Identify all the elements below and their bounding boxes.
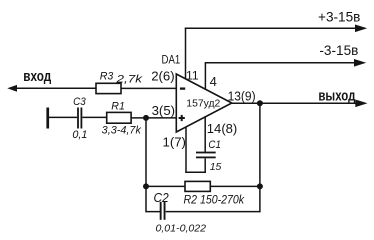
svg-text:вход: вход	[23, 69, 51, 85]
svg-text:DA1: DA1	[162, 53, 181, 66]
svg-text:C1: C1	[208, 139, 221, 151]
output wire (pin 13)	[232, 100, 368, 108]
svg-text:C3: C3	[73, 96, 86, 108]
wire junction down to R2/C2 net	[146, 118, 160, 212]
resistor R3	[96, 83, 121, 93]
-3-15в power rail	[205, 59, 367, 67]
wire C3 to R1	[82, 116, 106, 118]
wire output junction down to R2/C2 net	[166, 103, 260, 211]
svg-text:3(5): 3(5)	[152, 103, 175, 118]
svg-text:11: 11	[186, 68, 199, 82]
wire R1 to pin 3	[131, 117, 176, 119]
svg-text:13(9): 13(9)	[228, 88, 256, 103]
resistor R1	[107, 112, 131, 123]
svg-text:R1: R1	[111, 101, 125, 113]
svg-text:-3-15в: -3-15в	[319, 43, 358, 58]
op-amp DA1 triangle	[176, 74, 232, 132]
wire pin 1 down	[185, 127, 187, 173]
svg-text:R3: R3	[100, 70, 114, 82]
resistor R2	[185, 181, 210, 191]
wire bar to C3	[48, 116, 77, 118]
svg-text:157уд2: 157уд2	[186, 99, 220, 110]
svg-text:0,1: 0,1	[72, 129, 87, 141]
input arrow (вход)	[7, 85, 96, 92]
capacitor C1	[196, 152, 216, 159]
svg-text:15: 15	[210, 162, 222, 173]
svg-text:2(6): 2(6)	[151, 68, 174, 83]
svg-text:2,7k: 2,7k	[115, 74, 142, 86]
node B dot	[257, 183, 263, 189]
svg-text:0,01-0,022: 0,01-0,022	[156, 224, 207, 235]
svg-text:4: 4	[210, 74, 217, 89]
wire pin1 to C1 bottom	[185, 171, 206, 173]
plus sign (non-inverting input)	[179, 115, 185, 121]
wire pin 11 to +rail	[185, 28, 187, 79]
svg-text:R2 150-270k: R2 150-270k	[184, 193, 245, 207]
+3-15в power rail	[185, 25, 367, 33]
node: output junction	[257, 100, 263, 106]
wire R2 to node B	[210, 185, 260, 187]
capacitor C3	[77, 108, 82, 129]
input terminal bar	[46, 108, 49, 129]
svg-text:выход: выход	[318, 88, 355, 104]
wire pin 4 to -rail	[204, 63, 206, 89]
node: + input junction	[143, 115, 149, 121]
wire C1 bottom	[204, 158, 206, 173]
wire node A to R2	[146, 185, 185, 187]
minus sign (inverting input)	[180, 87, 185, 89]
svg-text:3,3-4,7k: 3,3-4,7k	[102, 125, 142, 137]
svg-text:1(7): 1(7)	[163, 134, 186, 149]
svg-text:+3-15в: +3-15в	[318, 10, 360, 25]
node A dot	[143, 183, 149, 189]
capacitor C2	[160, 202, 166, 220]
svg-text:14(8): 14(8)	[207, 121, 238, 136]
wire R3 to pin 2	[121, 87, 176, 89]
wire pin 14 to C1	[204, 117, 206, 152]
